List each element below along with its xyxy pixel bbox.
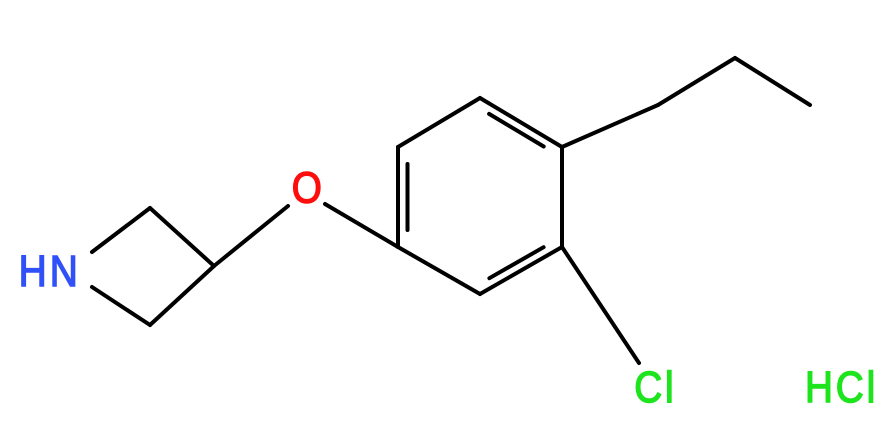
svg-text:Cl: Cl bbox=[634, 362, 676, 412]
svg-text:HCl: HCl bbox=[805, 362, 878, 412]
svg-text:HN: HN bbox=[19, 246, 81, 296]
svg-text:O: O bbox=[292, 162, 322, 212]
